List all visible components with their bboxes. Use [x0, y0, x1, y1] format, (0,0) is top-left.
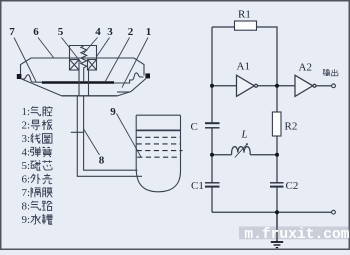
- coil bobbin box: [70, 46, 97, 60]
- core rod (5): [83, 68, 85, 83]
- op-amp A1: [237, 75, 258, 96]
- svg-text:9:: 9:: [22, 214, 31, 226]
- right crimp notch: [114, 73, 144, 83]
- svg-text:7: 7: [9, 26, 15, 38]
- leader line 2: [105, 38, 130, 83]
- output terminal: [332, 84, 336, 88]
- left seal block: [17, 74, 22, 79]
- junction dot A1 input: [210, 84, 214, 88]
- air duct (8) outer wall: [77, 96, 142, 176]
- watermark m.fruxit.com: [239, 227, 350, 244]
- svg-text:5: 5: [58, 26, 64, 38]
- svg-text:3: 3: [107, 26, 113, 38]
- left crimp notch: [21, 75, 42, 83]
- water dashed lines: [137, 137, 183, 157]
- right seal block: [145, 73, 150, 78]
- leader line 8: [83, 129, 99, 156]
- leader line 1: [122, 38, 148, 88]
- coil winding left (3): [70, 60, 80, 71]
- svg-text:2:: 2:: [22, 120, 31, 132]
- junction dot bottom: [275, 210, 279, 214]
- svg-text:1: 1: [146, 26, 152, 38]
- svg-text:A2: A2: [299, 62, 312, 74]
- svg-text:3:: 3:: [22, 133, 31, 145]
- svg-text:A1: A1: [237, 61, 250, 73]
- svg-text:1:: 1:: [22, 106, 31, 118]
- coil winding right (3): [88, 60, 97, 71]
- wire: left rail: [211, 27, 213, 212]
- housing bottom wall line: [62, 95, 117, 97]
- duct joint tick: [71, 131, 84, 133]
- wire: input to A1: [212, 85, 237, 87]
- op-amp A2: [295, 75, 316, 96]
- svg-text:2: 2: [128, 26, 134, 38]
- leader line 9: [117, 114, 142, 158]
- cavity walls below coil: [79, 70, 89, 96]
- housing bottom inner line: [117, 91, 130, 93]
- junction dot L right: [275, 153, 279, 157]
- capacitor C: [205, 123, 220, 128]
- leader line 5: [62, 38, 82, 64]
- svg-text:C1: C1: [191, 180, 204, 192]
- spring (4): [81, 46, 87, 68]
- ground: [271, 212, 283, 247]
- capacitor C2: [270, 183, 284, 187]
- legend 5: 磁芯: [30, 160, 40, 170]
- svg-text:C: C: [191, 121, 198, 133]
- diaphragm / guide plate (2,7): [42, 81, 114, 83]
- svg-text:7:: 7:: [22, 187, 31, 199]
- housing top outline (6 outer shell): [21, 58, 145, 76]
- resistor R2: [272, 112, 281, 136]
- svg-text:5:: 5:: [22, 160, 31, 172]
- svg-text:9: 9: [110, 106, 116, 118]
- legend 2: 导板: [31, 120, 40, 130]
- svg-text:8:: 8:: [22, 201, 31, 213]
- leader line 3: [96, 38, 109, 58]
- wire: L branch: [212, 154, 277, 156]
- legend 7: 隔膜: [31, 187, 40, 197]
- bottom right terminal: [332, 210, 336, 214]
- label 输出 (output): [323, 69, 338, 76]
- inductor L: [232, 147, 251, 155]
- capacitor C1: [205, 183, 220, 187]
- leader line 6: [38, 38, 54, 58]
- svg-text:8: 8: [99, 155, 105, 167]
- svg-text:C2: C2: [286, 180, 299, 192]
- junction dot A1 output node: [275, 84, 279, 88]
- svg-text:L: L: [241, 129, 248, 141]
- wire: middle rail: [276, 86, 278, 212]
- legend 9: 水罐: [31, 214, 41, 224]
- legend 4: 弹簧: [31, 147, 41, 157]
- svg-text:6:: 6:: [22, 174, 31, 186]
- svg-text:6: 6: [33, 26, 39, 38]
- svg-text:4: 4: [95, 26, 101, 38]
- legend: [22, 106, 53, 226]
- inductor adjust arrow: [235, 144, 248, 158]
- wire: A1 to A2: [258, 85, 295, 87]
- water surface line: [136, 129, 180, 131]
- legend 3: 线圈: [31, 133, 41, 143]
- water tank (9) outline: [136, 115, 180, 192]
- wire: top feedback with R1: [212, 27, 277, 86]
- wire: bottom rail: [212, 211, 332, 213]
- svg-text:4:: 4:: [22, 147, 31, 159]
- junction dot L left: [210, 153, 214, 157]
- resistor R1: [235, 21, 257, 30]
- legend 6: 外壳: [31, 174, 41, 184]
- housing bottom outline: [21, 79, 147, 97]
- svg-text:R2: R2: [285, 120, 298, 132]
- leader line 4: [84, 38, 98, 54]
- legend 1: 气腔: [31, 106, 41, 116]
- wire: A2 to output terminal: [316, 85, 331, 87]
- svg-text:m.fruxit.com: m.fruxit.com: [244, 227, 349, 243]
- leader line 7: [14, 38, 36, 82]
- legend 8: 气路: [31, 201, 41, 211]
- air duct (8) inner wall: [84, 96, 138, 170]
- svg-text:R1: R1: [238, 9, 251, 21]
